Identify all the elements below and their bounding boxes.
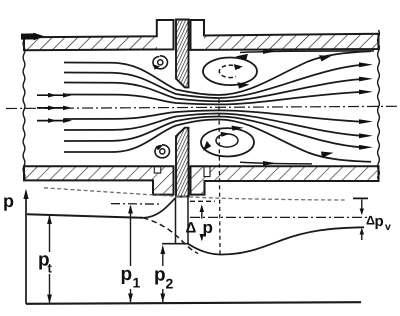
bottom pipe wall left section (24, 166, 174, 194)
top pipe wall right section (191, 20, 379, 50)
upper vortex inner loop (219, 64, 242, 77)
total pressure faint line (44, 188, 345, 200)
lower recirculation vortex outer loop (201, 126, 254, 157)
axis pressure dashed curve (143, 218, 198, 254)
wall attached flow line top (240, 49, 374, 54)
upstream static pressure line (27, 214, 143, 218)
streamline 7 (64, 117, 373, 150)
axis label p (4, 197, 13, 210)
p2 dimension arrow (160, 245, 165, 303)
p2 pressure level line (162, 243, 189, 245)
pressure axis (23, 189, 28, 304)
pressure tap notch right flange (204, 167, 210, 177)
inlet velocity arrow 2 (37, 106, 72, 111)
label pt (39, 255, 49, 269)
inlet flow big arrow (21, 33, 45, 41)
bottom pipe wall right section (191, 166, 379, 194)
streamline 3 (64, 77, 373, 102)
delta-pv dimension arrows (360, 200, 364, 241)
pressure drop at upstream face (175, 198, 177, 244)
pt dimension arrow (47, 215, 52, 304)
vena contracta dashed vertical line (219, 99, 220, 254)
delta-p top reference dashed (190, 200, 215, 202)
upper recirculation vortex outer loop (203, 54, 257, 89)
inlet velocity arrow 1 (37, 93, 72, 98)
upstream corner vortex lower (155, 145, 170, 158)
pipe break line right (378, 30, 380, 179)
label delta-p (186, 222, 196, 232)
delta-p dimension arrow (200, 205, 205, 242)
label p2 (155, 270, 165, 284)
dark tick at faint line end (353, 197, 368, 199)
orifice plate lower half (176, 128, 189, 197)
p1 level reference dash-dot (111, 203, 160, 206)
pressure line downstream face (187, 197, 189, 244)
streamline 5 (64, 110, 373, 124)
label p1 (122, 270, 132, 284)
inlet velocity arrow 3 (37, 118, 72, 123)
centerline of pipe (6, 106, 397, 108)
streamline 1 top (rises to wall downstream) (64, 51, 371, 95)
streamline 2 (64, 62, 373, 98)
orifice plate upper half (176, 20, 189, 88)
downstream wall pressure recovery curve (188, 227, 364, 254)
pressure tap notch left flange (154, 167, 161, 173)
p1 dimension arrow (128, 205, 133, 303)
streamline 4 (64, 90, 373, 105)
top pipe wall left section (24, 20, 174, 50)
lower vortex inner loop (216, 132, 238, 147)
wall pressure rise to peak (143, 198, 176, 218)
label delta-pv (367, 216, 375, 225)
upstream level reference dash-dot long (190, 216, 368, 218)
wall attached flow line bottom (240, 161, 312, 166)
streamline 6 (64, 114, 373, 139)
upstream corner vortex upper (153, 56, 168, 70)
plot baseline (26, 302, 361, 304)
streamline 8 bottom (descends to wall downstream) (64, 120, 371, 162)
pipe break line left (23, 40, 25, 180)
